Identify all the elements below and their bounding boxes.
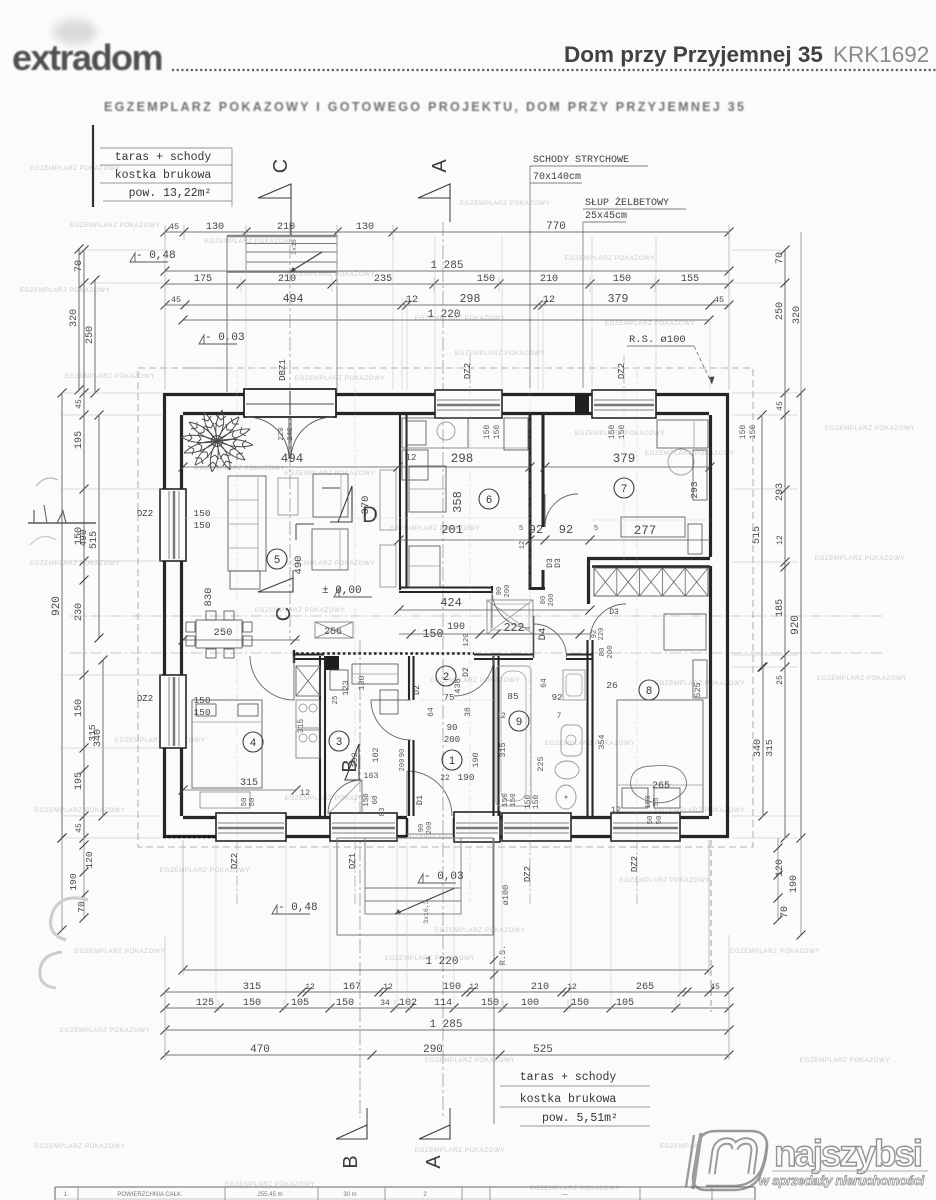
svg-text:70: 70 bbox=[74, 260, 85, 272]
svg-text:150: 150 bbox=[193, 707, 210, 718]
svg-text:DZ2: DZ2 bbox=[630, 856, 640, 872]
svg-text:kostka brukowa: kostka brukowa bbox=[520, 1093, 617, 1106]
svg-text:200: 200 bbox=[504, 585, 512, 598]
svg-text:150: 150 bbox=[571, 998, 589, 1009]
section marker C inplan bbox=[258, 570, 295, 621]
svg-text:255,45 m: 255,45 m bbox=[257, 1192, 282, 1198]
dimension column right outer 920 bbox=[800, 393, 802, 838]
svg-text:EGZEMPLARZ POKAZOWY: EGZEMPLARZ POKAZOWY bbox=[295, 375, 386, 382]
kitchen counter bbox=[402, 418, 528, 588]
desk room4 bbox=[200, 792, 250, 808]
left inner dims 315 340 bbox=[102, 660, 104, 816]
svg-text:525: 525 bbox=[693, 682, 703, 697]
svg-text:12: 12 bbox=[469, 983, 479, 992]
svg-text:379: 379 bbox=[608, 293, 629, 306]
svg-text:EGZEMPLARZ POKAZOWY: EGZEMPLARZ POKAZOWY bbox=[800, 1057, 891, 1064]
svg-text:200: 200 bbox=[548, 594, 556, 607]
svg-text:470: 470 bbox=[250, 1044, 270, 1056]
svg-text:515: 515 bbox=[752, 526, 763, 544]
svg-text:265: 265 bbox=[636, 982, 654, 993]
extension lines bottom area bbox=[165, 842, 729, 1058]
dim row 201 92 92 kitchen bbox=[395, 523, 599, 549]
svg-text:1 220: 1 220 bbox=[427, 309, 460, 321]
window DZ2 top kitchen bbox=[435, 390, 502, 418]
svg-text:DZ2: DZ2 bbox=[137, 694, 153, 704]
svg-text:A: A bbox=[423, 1155, 445, 1169]
svg-text:5: 5 bbox=[594, 525, 598, 533]
washer bath9 bbox=[563, 670, 585, 700]
axis lines inside plan bbox=[237, 370, 637, 902]
svg-text:- 0,03: - 0,03 bbox=[205, 332, 245, 344]
terrace bottom outline bbox=[337, 838, 493, 935]
svg-text:pow. 5,51m²: pow. 5,51m² bbox=[542, 1112, 618, 1125]
svg-text:920: 920 bbox=[51, 596, 63, 616]
svg-text:222: 222 bbox=[504, 622, 525, 635]
svg-text:525: 525 bbox=[533, 1044, 553, 1056]
extension lines right side bbox=[732, 250, 798, 838]
svg-text:EGZEMPLARZ POKAZOWY: EGZEMPLARZ POKAZOWY bbox=[75, 948, 166, 955]
dims room8 bbox=[597, 680, 703, 815]
room circle 2 bbox=[436, 666, 456, 686]
svg-text:201: 201 bbox=[441, 523, 463, 537]
svg-text:50: 50 bbox=[249, 797, 257, 807]
interior wall room3 left bbox=[320, 656, 325, 816]
attic ladder hall bbox=[487, 600, 533, 634]
svg-text:190: 190 bbox=[447, 622, 465, 633]
room circle 7 bbox=[614, 478, 634, 498]
svg-text:SŁUP ŻELBETOWY: SŁUP ŻELBETOWY bbox=[585, 196, 669, 209]
svg-text:210: 210 bbox=[277, 222, 295, 233]
section line A vertical bbox=[442, 222, 444, 1118]
interior wall room3 right bbox=[371, 656, 422, 816]
svg-text:225: 225 bbox=[536, 756, 546, 771]
svg-text:200: 200 bbox=[426, 822, 434, 835]
svg-text:190: 190 bbox=[789, 875, 800, 893]
svg-text:1.: 1. bbox=[63, 1192, 68, 1198]
svg-text:12: 12 bbox=[305, 983, 315, 992]
svg-text:DZ2: DZ2 bbox=[463, 363, 473, 379]
svg-text:12: 12 bbox=[611, 805, 621, 815]
dim 494 living bbox=[179, 452, 403, 472]
svg-text:163: 163 bbox=[363, 771, 378, 781]
window bottom corridor small bbox=[454, 812, 500, 842]
dimension row top 1 bbox=[165, 231, 729, 233]
dim row hall 190 120 222 bbox=[399, 622, 590, 647]
svg-text:830: 830 bbox=[203, 588, 215, 607]
svg-text:100: 100 bbox=[521, 998, 539, 1009]
right inner 515 bbox=[761, 415, 763, 667]
svg-text:90: 90 bbox=[418, 824, 426, 832]
svg-text:EGZEMPLARZ POKAZOWY: EGZEMPLARZ POKAZOWY bbox=[390, 525, 481, 532]
svg-text:150: 150 bbox=[618, 425, 627, 440]
svg-text:80: 80 bbox=[540, 596, 548, 604]
svg-text:EGZEMPLARZ POKAZOWY: EGZEMPLARZ POKAZOWY bbox=[825, 425, 916, 432]
svg-text:KRK1692: KRK1692 bbox=[833, 42, 929, 67]
svg-text:34: 34 bbox=[380, 999, 390, 1008]
section marker D inplan bbox=[296, 486, 378, 540]
bed room4 bbox=[192, 700, 262, 788]
outer wall right bbox=[711, 393, 728, 838]
dim 379 room7 bbox=[541, 452, 715, 472]
svg-text:8: 8 bbox=[646, 685, 652, 697]
svg-text:DZ2: DZ2 bbox=[230, 853, 240, 869]
svg-text:45: 45 bbox=[710, 983, 720, 992]
svg-text:150: 150 bbox=[739, 425, 748, 440]
svg-text:195: 195 bbox=[74, 772, 85, 790]
room circle 9 bbox=[509, 711, 529, 731]
svg-text:EGZEMPLARZ POKAZOWY: EGZEMPLARZ POKAZOWY bbox=[730, 948, 821, 955]
interior wall kitchen bottom bbox=[399, 586, 492, 593]
svg-text:EGZEMPLARZ POKAZOWY: EGZEMPLARZ POKAZOWY bbox=[645, 450, 736, 457]
room circle 8 bbox=[639, 680, 659, 700]
svg-text:150: 150 bbox=[74, 699, 85, 717]
svg-text:150: 150 bbox=[749, 425, 758, 440]
door D2 hall-room1 arc bbox=[454, 656, 494, 696]
svg-text:150: 150 bbox=[363, 793, 371, 807]
door arc kitchen bbox=[492, 590, 530, 628]
extension lines bottom bbox=[165, 840, 729, 1060]
svg-text:240: 240 bbox=[287, 427, 295, 441]
svg-text:315: 315 bbox=[87, 724, 98, 741]
stamp ghost bottom left bbox=[40, 898, 88, 988]
svg-text:EGZEMPLARZ POKAZOWY: EGZEMPLARZ POKAZOWY bbox=[435, 927, 526, 934]
svg-text:25: 25 bbox=[776, 675, 785, 685]
svg-text:150: 150 bbox=[532, 795, 541, 810]
dimension row top 5 bbox=[183, 319, 709, 321]
dashed line right terrace bbox=[710, 840, 712, 1012]
svg-text:185: 185 bbox=[775, 599, 786, 617]
svg-text:125: 125 bbox=[196, 998, 214, 1009]
svg-text:45: 45 bbox=[169, 222, 179, 232]
svg-text:taras + schody: taras + schody bbox=[520, 1071, 617, 1084]
svg-text:2: 2 bbox=[443, 671, 449, 683]
svg-text:DZ1: DZ1 bbox=[348, 853, 358, 869]
svg-text:250: 250 bbox=[775, 302, 786, 320]
svg-text:50: 50 bbox=[241, 797, 249, 807]
dimension row bottom 3 bbox=[165, 1007, 729, 1009]
svg-text:pow. 13,22m²: pow. 13,22m² bbox=[129, 187, 212, 200]
svg-text:DZ2: DZ2 bbox=[137, 509, 153, 519]
svg-text:515: 515 bbox=[89, 531, 100, 549]
terrain level mark left margin bbox=[28, 478, 96, 545]
svg-text:150: 150 bbox=[613, 274, 631, 285]
svg-text:298: 298 bbox=[460, 293, 481, 306]
axis line window top W2 bbox=[623, 355, 625, 392]
svg-text:kostka brukowa: kostka brukowa bbox=[115, 169, 212, 182]
svg-text:1 220: 1 220 bbox=[425, 956, 458, 968]
svg-text:105: 105 bbox=[291, 998, 309, 1009]
interior wall room7 bottom bbox=[587, 558, 710, 604]
svg-text:315: 315 bbox=[297, 719, 306, 734]
outer wall bottom bbox=[163, 818, 729, 838]
svg-text:200: 200 bbox=[607, 645, 615, 659]
svg-text:190: 190 bbox=[68, 873, 79, 890]
svg-text:DZ2: DZ2 bbox=[617, 363, 627, 379]
room circle 1 bbox=[442, 750, 462, 770]
svg-text:3: 3 bbox=[336, 736, 342, 748]
svg-text:92: 92 bbox=[529, 523, 543, 537]
svg-text:najszybsi: najszybsi bbox=[774, 1133, 921, 1174]
door arc room3 bottom bbox=[328, 780, 362, 814]
svg-text:50: 50 bbox=[656, 815, 664, 825]
svg-text:EGZEMPLARZ POKAZOWY: EGZEMPLARZ POKAZOWY bbox=[60, 1027, 151, 1034]
dim 256 pass bbox=[315, 622, 353, 638]
svg-text:920: 920 bbox=[790, 615, 802, 635]
svg-text:7: 7 bbox=[557, 712, 562, 721]
najszybsi logo mark bbox=[686, 1131, 767, 1190]
dims room3 bbox=[332, 675, 381, 781]
label schody strychowe bbox=[530, 155, 648, 388]
svg-text:190: 190 bbox=[443, 982, 461, 993]
svg-text:120: 120 bbox=[775, 859, 786, 877]
right bottom small chain bbox=[774, 838, 806, 940]
svg-text:358: 358 bbox=[451, 491, 465, 513]
svg-text:150: 150 bbox=[193, 695, 210, 706]
svg-text:25x45cm: 25x45cm bbox=[585, 211, 627, 222]
dims corridor1 bbox=[440, 707, 481, 783]
svg-text:EGZEMPLARZ POKAZOWY: EGZEMPLARZ POKAZOWY bbox=[35, 1143, 126, 1150]
window DZ2 bottom room4 bbox=[216, 813, 286, 841]
svg-text:490: 490 bbox=[293, 556, 305, 575]
svg-text:150: 150 bbox=[645, 795, 653, 809]
svg-text:ø100: ø100 bbox=[501, 885, 511, 905]
svg-text:EGZEMPLARZ POKAZOWY: EGZEMPLARZ POKAZOWY bbox=[35, 807, 126, 814]
toilet bath9 bbox=[556, 785, 576, 809]
svg-text:83: 83 bbox=[379, 807, 387, 817]
svg-text:150: 150 bbox=[483, 425, 492, 440]
dimension column left mid bbox=[83, 250, 85, 838]
svg-text:25: 25 bbox=[332, 695, 340, 705]
extension lines left side bbox=[60, 250, 165, 838]
svg-text:1: 1 bbox=[449, 755, 455, 767]
dimension column left inner bbox=[94, 280, 96, 393]
dim 250 living bottom bbox=[179, 627, 301, 645]
extension lines top bbox=[165, 225, 729, 390]
dimension row top 4 bbox=[165, 304, 729, 306]
room circle 5 bbox=[267, 549, 287, 569]
svg-text:- 0,03: - 0,03 bbox=[424, 871, 464, 883]
svg-text:90: 90 bbox=[496, 587, 504, 595]
horizontal dash line corridor bbox=[70, 652, 885, 654]
svg-text:R.S.: R.S. bbox=[498, 945, 508, 965]
left bottom small chain bbox=[58, 834, 96, 935]
svg-text:A: A bbox=[429, 159, 451, 173]
svg-text:EGZEMPLARZ POKAZOWY: EGZEMPLARZ POKAZOWY bbox=[415, 1147, 506, 1154]
svg-text:C: C bbox=[273, 607, 295, 621]
interior wall room8 left bbox=[588, 604, 627, 816]
svg-text:12: 12 bbox=[567, 983, 577, 992]
svg-text:C: C bbox=[270, 159, 292, 173]
svg-text:12: 12 bbox=[519, 541, 527, 549]
bathtub bath9 bbox=[496, 666, 531, 806]
svg-text:315: 315 bbox=[764, 739, 775, 756]
svg-text:92: 92 bbox=[559, 523, 573, 537]
window DZ2 bottom room8 bbox=[611, 813, 680, 841]
dim 150 150 window left bbox=[193, 508, 210, 718]
interior wall bath left bbox=[494, 656, 499, 816]
svg-text:265: 265 bbox=[652, 781, 670, 792]
svg-text:EGZEMPLARZ POKAZOWY: EGZEMPLARZ POKAZOWY bbox=[20, 287, 111, 294]
svg-text:130: 130 bbox=[357, 675, 367, 690]
window DZ2 top room7 bbox=[592, 390, 656, 418]
dims room2 75 438 bbox=[427, 678, 463, 716]
dim 150 150 top windows bbox=[483, 425, 758, 440]
wardrobe room4 hatched bbox=[296, 666, 320, 758]
svg-text:494: 494 bbox=[281, 452, 304, 466]
svg-text:315: 315 bbox=[498, 742, 508, 757]
svg-text:5: 5 bbox=[519, 525, 523, 533]
svg-text:± 0,00: ± 0,00 bbox=[322, 585, 362, 597]
column slup bbox=[326, 656, 339, 670]
svg-text:4: 4 bbox=[250, 737, 256, 749]
wardrobe hatched room8 top bbox=[594, 568, 708, 596]
svg-text:5: 5 bbox=[274, 554, 280, 566]
window DZ2 left living bbox=[160, 489, 186, 561]
svg-text:150: 150 bbox=[243, 998, 261, 1009]
svg-text:POWIERZCHNIA CAŁK.: POWIERZCHNIA CAŁK. bbox=[117, 1192, 183, 1198]
logo smudge bbox=[53, 19, 97, 45]
svg-text:85: 85 bbox=[507, 691, 519, 702]
horizontal dash line mid bbox=[70, 615, 885, 617]
interior wall kitchen left bbox=[400, 415, 407, 590]
wardrobe note blob room8 bbox=[631, 765, 687, 824]
axis lines windows bottom bbox=[237, 840, 637, 905]
room circle 3 bbox=[329, 731, 349, 751]
bidet bath9 bbox=[555, 761, 579, 779]
right inner 340 315 bbox=[762, 667, 764, 816]
svg-text:494: 494 bbox=[283, 293, 304, 306]
svg-text:230: 230 bbox=[74, 603, 85, 621]
svg-text:EGZEMPLARZ POKAZOWY: EGZEMPLARZ POKAZOWY bbox=[30, 165, 121, 172]
outer wall top bbox=[163, 395, 729, 414]
svg-text:EGZEMPLARZ POKAZOWY: EGZEMPLARZ POKAZOWY bbox=[460, 200, 551, 207]
interior wall bath top bbox=[488, 655, 588, 660]
svg-text:340: 340 bbox=[753, 739, 764, 757]
svg-text:50: 50 bbox=[647, 815, 655, 825]
svg-text:12: 12 bbox=[543, 295, 555, 306]
svg-text:167: 167 bbox=[343, 982, 361, 993]
svg-text:26: 26 bbox=[606, 680, 618, 691]
svg-text:3x15: 3x15 bbox=[291, 239, 298, 255]
svg-text:12: 12 bbox=[300, 788, 310, 798]
svg-text:EGZEMPLARZ POKAZOWY: EGZEMPLARZ POKAZOWY bbox=[65, 373, 156, 380]
svg-text:130: 130 bbox=[356, 222, 374, 233]
extension lines top area bbox=[241, 236, 710, 390]
svg-text:D3: D3 bbox=[554, 558, 563, 568]
armchairs living bbox=[312, 474, 348, 570]
svg-text:150: 150 bbox=[481, 998, 499, 1009]
svg-text:12: 12 bbox=[406, 295, 418, 306]
svg-text:45: 45 bbox=[776, 401, 785, 411]
washbasin bath9 bbox=[561, 725, 582, 756]
svg-text:EGZEMPLARZ POKAZOWY: EGZEMPLARZ POKAZOWY bbox=[425, 1057, 516, 1064]
svg-text:R.S. ø100: R.S. ø100 bbox=[629, 334, 686, 346]
svg-text:155: 155 bbox=[681, 274, 699, 285]
svg-text:1 285: 1 285 bbox=[429, 1019, 462, 1031]
svg-text:200: 200 bbox=[444, 735, 460, 745]
level -0.03 bottom bbox=[418, 871, 464, 883]
svg-text:38: 38 bbox=[464, 707, 473, 717]
svg-text:- 0,48: - 0,48 bbox=[278, 902, 318, 914]
section marker A top bbox=[418, 159, 451, 222]
svg-text:Dom przy Przyjemnej 35: Dom przy Przyjemnej 35 bbox=[564, 42, 823, 67]
interior shaft kitchen-room7 bbox=[530, 415, 545, 590]
left inner dims 490 515 bbox=[98, 415, 100, 638]
section marker B bottom bbox=[336, 1108, 367, 1169]
svg-text:92: 92 bbox=[552, 693, 563, 703]
window DZ1 bottom terrace door bbox=[330, 813, 397, 841]
svg-text:70: 70 bbox=[76, 901, 87, 913]
dimension row top 2 bbox=[165, 270, 729, 272]
level mark -0.03 top bbox=[199, 332, 245, 344]
svg-text:45: 45 bbox=[75, 399, 84, 409]
window DZ2 left room4 bbox=[160, 675, 186, 748]
outer wall left bbox=[165, 393, 182, 838]
section marker C top bbox=[258, 159, 292, 236]
svg-text:210: 210 bbox=[278, 274, 296, 285]
svg-text:490: 490 bbox=[78, 529, 89, 546]
dim 315 room4 bbox=[179, 778, 311, 798]
svg-text:150: 150 bbox=[193, 520, 210, 531]
svg-text:D: D bbox=[362, 502, 378, 527]
svg-text:130: 130 bbox=[206, 222, 224, 233]
dimension row bottom 5 bbox=[165, 1054, 729, 1056]
furniture room7 bbox=[621, 420, 708, 554]
svg-text:EGZEMPLARZ POKAZOWY I GOTOWEGO: EGZEMPLARZ POKAZOWY I GOTOWEGO PROJEKTU,… bbox=[104, 100, 744, 114]
window DZ2 bottom bath bbox=[502, 813, 571, 841]
svg-text:45: 45 bbox=[75, 823, 84, 833]
svg-text:770: 770 bbox=[546, 221, 566, 233]
svg-text:64: 64 bbox=[540, 678, 549, 688]
svg-text:EGZEMPLARZ POKAZOWY: EGZEMPLARZ POKAZOWY bbox=[565, 255, 656, 262]
dimension row bottom 4 bbox=[165, 1029, 729, 1031]
svg-text:102: 102 bbox=[371, 747, 381, 762]
svg-text:1 285: 1 285 bbox=[430, 260, 463, 272]
svg-text:EGZEMPLARZ POKAZOWY: EGZEMPLARZ POKAZOWY bbox=[620, 877, 711, 884]
svg-text:DZ2: DZ2 bbox=[523, 866, 533, 882]
level 0.00 living bbox=[322, 585, 372, 597]
svg-text:30 m: 30 m bbox=[343, 1192, 356, 1198]
svg-text:150: 150 bbox=[423, 628, 444, 641]
svg-text:114: 114 bbox=[434, 998, 452, 1009]
svg-text:- 0,48: - 0,48 bbox=[136, 250, 176, 262]
header dotted rule bbox=[172, 69, 936, 71]
svg-text:extradom: extradom bbox=[12, 37, 162, 78]
sofa living bbox=[228, 476, 266, 589]
svg-text:80: 80 bbox=[599, 647, 607, 657]
tv cabinet living bbox=[380, 470, 396, 530]
svg-text:EGZEMPLARZ POKAZOWY: EGZEMPLARZ POKAZOWY bbox=[545, 740, 636, 747]
dimension row bottom 1 bbox=[183, 969, 709, 971]
interior thin room lines bbox=[183, 518, 710, 700]
svg-text:w sprzedaży nieruchomości: w sprzedaży nieruchomości bbox=[759, 1173, 925, 1188]
dimension column right mid bbox=[784, 250, 786, 838]
svg-text:190: 190 bbox=[471, 752, 481, 767]
svg-text:210: 210 bbox=[531, 982, 549, 993]
svg-text:EGZEMPLARZ POKAZOWY: EGZEMPLARZ POKAZOWY bbox=[455, 350, 546, 357]
svg-text:60: 60 bbox=[372, 795, 380, 805]
svg-text:123: 123 bbox=[341, 680, 351, 695]
room circle 4 bbox=[243, 732, 263, 752]
svg-text:195: 195 bbox=[74, 431, 85, 449]
dims bath9 bbox=[496, 678, 562, 809]
dim 150 120 hall bbox=[423, 585, 512, 641]
svg-text:150: 150 bbox=[493, 425, 502, 440]
svg-text:90: 90 bbox=[399, 749, 407, 757]
level -0.48 bottom bbox=[272, 902, 318, 914]
svg-text:354: 354 bbox=[597, 734, 607, 749]
svg-text:64: 64 bbox=[427, 707, 436, 717]
